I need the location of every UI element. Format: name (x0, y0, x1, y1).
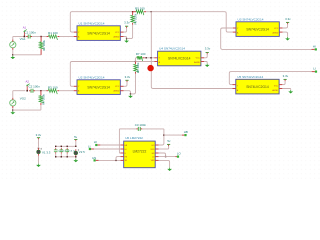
svg-text:SN74LVC2G14: SN74LVC2G14 (87, 31, 110, 35)
wire U2 output riser to mid rail (70, 62, 135, 87)
lead R5 right (144, 11, 146, 13)
terminal HI (output a) (315, 48, 317, 50)
battery V2 5V (74, 149, 79, 157)
lead R3 left (46, 90, 48, 92)
3.3v supply tap (V1) (37, 138, 40, 140)
svg-text:HB: HB (184, 130, 188, 134)
wire VDD riser (168, 145, 170, 149)
svg-text:3.3v: 3.3v (124, 20, 130, 24)
lead HS (96, 159, 99, 161)
junction cap C5 bottom (61, 156, 62, 157)
svg-text:3.3v: 3.3v (283, 74, 289, 78)
pin stub U6 left (120, 152, 123, 154)
IC U6 LM27222 driver (124, 141, 156, 168)
svg-text:3.3v: 3.3v (285, 17, 291, 21)
terminal LI (output b) (315, 71, 317, 73)
svg-text:AGND: AGND (114, 89, 120, 92)
svg-text:C3 100n: C3 100n (135, 123, 147, 127)
wire node drop to U5 input (151, 12, 232, 89)
wire VG1 to C1 (13, 36, 25, 38)
wire U1 output riser to top rail (70, 12, 132, 32)
wire R4 to bottom rail (40, 105, 42, 110)
svg-text:R6 100k: R6 100k (133, 13, 137, 24)
wire U4 AGND down (204, 62, 207, 64)
lead R6 bottom (132, 23, 134, 25)
resistor R7 (137, 56, 143, 61)
lead R2 top (40, 37, 42, 42)
battery V1 3.3V (37, 148, 42, 156)
junction node C1/R1/R2 (40, 36, 41, 37)
svg-text:3.3v: 3.3v (125, 75, 131, 79)
svg-text:VCC: VCC (115, 86, 120, 88)
svg-text:HI: HI (313, 44, 316, 48)
lead R7 right (143, 57, 145, 59)
resistor R1 (49, 35, 58, 40)
wire HB node to terminal (164, 134, 182, 136)
wire VG2 bottom (12, 108, 14, 110)
capacitor C6 (65, 148, 69, 154)
junction mid rail a (146, 57, 147, 58)
wire U6 VDD (159, 148, 169, 150)
wire V2 bottom (75, 157, 77, 159)
junction V2 top (75, 146, 76, 147)
wire bottom rail circuit 1 (13, 54, 41, 56)
pin stub U6 right (155, 156, 158, 158)
pin stub U4 A (154, 61, 157, 63)
wire C5 bottom (60, 154, 62, 157)
pin stub U4 Y (154, 57, 157, 59)
wire C1 to R1 (32, 36, 46, 38)
current probe A2 (26, 84, 29, 92)
pin stub U6 left (120, 148, 123, 150)
wire U2 VCC to 3.3v tap (124, 82, 127, 87)
svg-text:SN74LVC2G14: SN74LVC2G14 (246, 85, 269, 89)
svg-text:AGND: AGND (194, 61, 200, 64)
terminal LI (U6 input) (89, 148, 91, 150)
wire C3 right (142, 128, 164, 130)
wire VG1 top riser (12, 37, 14, 40)
wire C2 to R3 (35, 90, 46, 92)
pin stub U6 right (155, 148, 158, 150)
svg-text:VG1: VG1 (20, 37, 26, 41)
wire U1 VCC to 3.3v tap (124, 28, 127, 32)
ground (U5) (288, 90, 293, 93)
wire U5 VCC to 3.3v tap (282, 81, 285, 85)
terminal HB (184, 134, 186, 136)
junction mid rail / R8 (135, 61, 136, 62)
wire U4 VCC to 3.3v tap (204, 54, 207, 58)
wire LI terminal to U6 (94, 148, 120, 150)
3.3v supply tap (U1) (125, 26, 128, 28)
IC U1 (SN74LVC2G14) (77, 26, 120, 41)
pin stub U2 Y (74, 85, 77, 87)
svg-text:R1 100: R1 100 (48, 31, 58, 35)
pin stub U3 VCC (279, 27, 282, 29)
pin stub U5 A (233, 88, 236, 90)
3.3v supply tap (U3) (286, 22, 289, 24)
ground (V1) (36, 164, 41, 167)
wire C3 left (119, 128, 126, 130)
junction cap C6 top (67, 146, 68, 147)
wire R1 to U1 input (59, 36, 73, 38)
wire U2 AGND down (124, 91, 131, 94)
pin stub U1 A (74, 36, 77, 38)
ground (U6) (167, 168, 172, 171)
svg-text:SN74LVC2G14: SN74LVC2G14 (168, 57, 191, 61)
resistor R8 (134, 64, 139, 72)
svg-text:LM27222: LM27222 (133, 150, 147, 154)
ground (VG2) (10, 111, 15, 114)
wire mid rail to U4 lower pin (136, 61, 155, 63)
3.3v supply tap (U2) (125, 80, 128, 82)
svg-text:5v: 5v (74, 135, 78, 139)
svg-text:VCC: VCC (274, 28, 279, 30)
terminal HS (U6) (94, 159, 96, 161)
svg-text:R5 100: R5 100 (135, 6, 145, 10)
ground (U2) (128, 95, 133, 98)
wire U6 VSS down (159, 160, 170, 167)
svg-text:AGND: AGND (114, 35, 120, 38)
wire R6 to ground node (127, 25, 133, 39)
junction VG1 ground node (12, 54, 13, 55)
pin stub U6 left (120, 144, 123, 146)
capacitor C5 (60, 148, 64, 154)
lead R4 bottom (40, 103, 42, 105)
resistor R2 (39, 42, 44, 49)
pin stub U4 AGND (201, 61, 204, 63)
lead LI input (91, 148, 94, 150)
pin stub U3 AGND (279, 31, 282, 33)
svg-text:V1 3.3: V1 3.3 (42, 150, 51, 154)
wire U6 HS pin down (159, 153, 166, 157)
svg-text:LI: LI (313, 67, 316, 71)
junction V1 top (38, 148, 39, 149)
junction mid rail / node drop (150, 57, 151, 58)
svg-text:SN74LVC2G14: SN74LVC2G14 (246, 27, 269, 31)
wire VG2 to C2 (13, 90, 25, 92)
wire C3 right drop to U6 HO (159, 129, 164, 145)
IC U5 (SN74LVC2G14) (236, 79, 279, 94)
junction U1 ground node (126, 38, 127, 39)
terminal LO (177, 156, 179, 158)
pin stub U6 right (155, 152, 158, 154)
wire U1 AGND down (124, 37, 127, 39)
wire V2 tap down (75, 141, 77, 146)
pin stub U1 VCC (120, 31, 123, 33)
pin stub U3 A (233, 31, 236, 33)
wire U3 output to HI terminal (221, 28, 312, 49)
wire VG1 bottom (12, 50, 14, 55)
wire C3 left drop to U6 (119, 129, 120, 153)
IC U4 (SN74LVC2G14) (158, 51, 201, 66)
svg-text:U1 SN74LVC2G14: U1 SN74LVC2G14 (79, 21, 105, 25)
lead R6 top (132, 12, 134, 16)
wire to C3 (126, 128, 136, 130)
capacitor C1 (26, 35, 32, 39)
lead LO terminal (175, 156, 177, 158)
ground (V2) (73, 159, 78, 162)
svg-text:HS: HS (92, 156, 96, 160)
lead R5 left (133, 11, 136, 13)
wire HS terminal to U6 (99, 159, 121, 161)
wire VG2 top riser (12, 91, 14, 98)
junction cap C5 top (61, 146, 62, 147)
junction U2 ground node (130, 93, 131, 94)
pin stub U5 AGND (279, 88, 282, 90)
wire U3 AGND down (283, 32, 288, 37)
5v supply tap (U6) (167, 144, 170, 146)
lead R4 top (40, 91, 42, 96)
pin stub U6 left (120, 156, 123, 158)
lead LI terminal (312, 71, 315, 73)
wire U6 LO to terminal (159, 156, 176, 158)
wire mid rail corner up to R7 (136, 58, 137, 62)
ground (U1) (124, 39, 129, 42)
current probe A1 (23, 30, 26, 38)
wire R7 to U4 upper pin (145, 57, 155, 59)
pin stub U5 Y (233, 84, 236, 86)
lead R2 bottom (40, 49, 42, 55)
junction top rail / node drop (151, 11, 152, 12)
svg-text:R7 100: R7 100 (136, 52, 146, 56)
voltage generator VG1 (10, 40, 16, 50)
svg-text:U3 SN74LVC2G14: U3 SN74LVC2G14 (238, 17, 264, 21)
5v supply tap (V2) (74, 140, 77, 142)
lead HI terminal (312, 48, 315, 50)
capacitor C2 (29, 89, 35, 93)
svg-text:C1 100n: C1 100n (25, 31, 37, 35)
pin stub U6 right (155, 159, 158, 161)
wire C4 bottom (55, 154, 57, 157)
svg-text:3.3v: 3.3v (205, 47, 211, 51)
junction cap C4 bottom (55, 156, 56, 157)
pin stub U4 VCC (201, 57, 204, 59)
pin stub U2 VCC (120, 85, 123, 87)
svg-text:VCC: VCC (274, 86, 279, 88)
svg-text:VCC: VCC (196, 57, 201, 59)
wire V1 top (38, 139, 40, 146)
node marker (red dot) (147, 65, 153, 71)
lead R8 bottom (135, 72, 137, 74)
wire R5 to node drop (146, 11, 151, 13)
pin stub U3 Y (233, 27, 236, 29)
lead HB terminal (182, 134, 185, 136)
junction cap C6 bottom (67, 156, 68, 157)
pin stub U2 AGND (120, 90, 123, 92)
wire U5 output to LI terminal (229, 72, 311, 85)
wire R8 to U2 ground node (131, 74, 136, 94)
svg-text:A2: A2 (25, 80, 29, 84)
svg-text:U5 SN74LVC2G14: U5 SN74LVC2G14 (237, 75, 263, 79)
wire HS branch to upper pin (116, 157, 120, 161)
svg-text:R8 100k: R8 100k (136, 62, 140, 73)
svg-text:C2 100n: C2 100n (29, 85, 41, 89)
resistor R6 (131, 15, 136, 23)
wire top rail to U3 input (151, 12, 232, 32)
wire C6 bottom (66, 154, 68, 157)
wire U3 VCC to 3.3v tap (283, 24, 288, 28)
svg-text:U2 SN74LVC2G14: U2 SN74LVC2G14 (79, 75, 105, 79)
lead R8 top (135, 62, 137, 65)
lead R1 right (58, 36, 60, 38)
capacitor C3 (136, 127, 142, 131)
IC U2 (SN74LVC2G14) (77, 80, 120, 95)
lead HI input (97, 144, 100, 146)
junction LO node (165, 156, 166, 157)
junction VG2 ground node (12, 109, 13, 110)
IC U3 (SN74LVC2G14) (236, 22, 279, 37)
terminal HI (U6 input) (95, 144, 97, 146)
wire R3 to U2 input (59, 90, 73, 92)
resistor R5 (136, 10, 144, 15)
svg-text:HI: HI (94, 140, 97, 144)
pin stub U6 left (120, 159, 123, 161)
3.3v supply tap (U5) (284, 79, 287, 81)
voltage generator VG2 (10, 98, 16, 108)
svg-text:V2 5: V2 5 (79, 150, 85, 154)
ground (U4) (205, 64, 210, 67)
svg-text:3.3v: 3.3v (36, 133, 42, 137)
svg-text:U6 LM27222: U6 LM27222 (125, 136, 143, 140)
svg-text:R4 100k: R4 100k (42, 93, 46, 104)
svg-text:VCC: VCC (115, 32, 120, 34)
wire cap bank bottom rail (56, 156, 76, 158)
svg-text:R2 100k: R2 100k (42, 39, 46, 50)
pin stub U6 right (155, 144, 158, 146)
resistor R4 (39, 96, 44, 103)
pin stub U5 VCC (279, 84, 282, 86)
svg-text:SN74LVC2G14: SN74LVC2G14 (87, 85, 110, 89)
svg-text:5v: 5v (167, 139, 171, 143)
lead R1 left (47, 36, 49, 38)
capacitor C4 (54, 148, 58, 154)
svg-text:AGND: AGND (272, 89, 278, 92)
pin stub U1 Y (74, 31, 77, 33)
junction cap C4 top (55, 146, 56, 147)
junction V2 bottom (75, 156, 76, 157)
resistor R3 (48, 89, 57, 94)
pin stub U1 AGND (120, 36, 123, 38)
svg-text:AGND: AGND (273, 31, 279, 34)
svg-text:U4 SN74LVC2G14: U4 SN74LVC2G14 (159, 47, 185, 51)
svg-text:R3 100: R3 100 (48, 85, 58, 89)
svg-text:A1: A1 (23, 26, 27, 30)
wire cap bank top rail (56, 145, 76, 147)
wire V1 bottom (38, 156, 40, 164)
lead R3 right (57, 90, 59, 92)
wire bottom rail circuit 2 (13, 109, 41, 111)
junction top rail / R6 (132, 11, 133, 12)
svg-text:VG2: VG2 (20, 97, 26, 101)
wire V1 top b (38, 146, 40, 148)
junction node C2/R3/R4 (40, 90, 41, 91)
svg-text:LI: LI (88, 144, 91, 148)
wire HI terminal to U6 (100, 144, 120, 146)
ground (VG1) (10, 56, 15, 59)
3.3v supply tap (U4) (206, 53, 209, 55)
junction HB node (163, 134, 164, 135)
pin stub U2 A (74, 90, 77, 92)
junction HS branch (115, 160, 116, 161)
wire U5 AGND down (282, 89, 290, 90)
ground (U3) (285, 37, 290, 40)
